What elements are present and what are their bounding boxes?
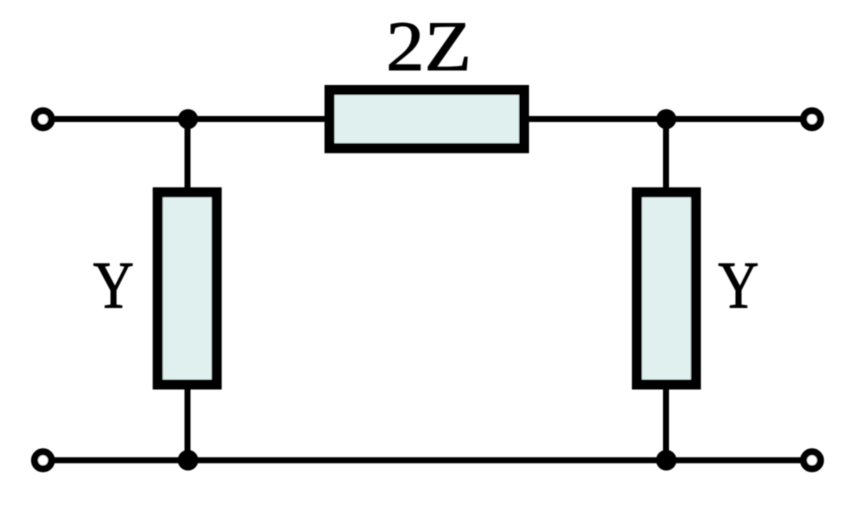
svg-text:Y: Y bbox=[718, 249, 759, 323]
svg-text:2Z: 2Z bbox=[386, 7, 471, 85]
svg-text:Y: Y bbox=[93, 249, 134, 323]
